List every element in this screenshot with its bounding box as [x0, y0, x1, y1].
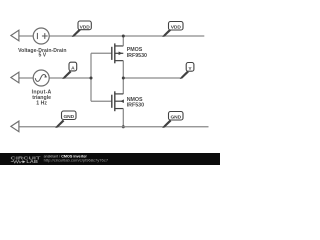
wire input row left segment — [19, 77, 33, 79]
footer logo wave — [11, 160, 23, 163]
wire gate stub PMOS — [91, 52, 112, 54]
transistor Q1 PMOS — [112, 43, 115, 63]
net flag Y — [181, 71, 189, 78]
node junction output — [122, 77, 125, 80]
svg-text:1 Hz: 1 Hz — [36, 101, 47, 107]
net flag GND left — [56, 120, 64, 127]
svg-text:IRF9530: IRF9530 — [127, 53, 147, 59]
node junction PMOS VDD — [122, 35, 125, 38]
terminal arrow top-left — [11, 30, 19, 41]
wire top rail left segment — [19, 35, 33, 37]
svg-text:5 V: 5 V — [38, 53, 46, 59]
wire PMOS source up — [122, 36, 124, 46]
footer logo arrow — [23, 160, 26, 163]
svg-text:http://circuitlab.com/c/pt968c: http://circuitlab.com/c/pt968c7y76c7 — [44, 159, 109, 163]
svg-text:GND: GND — [63, 114, 74, 120]
node junction NMOS GND — [122, 125, 125, 128]
wire gate stub NMOS — [91, 100, 112, 102]
terminal arrow input — [11, 72, 19, 83]
net flag VDD left — [73, 29, 81, 36]
wire PMOS drain down — [122, 61, 124, 78]
wire NMOS source down — [122, 109, 124, 127]
wire NMOS drain up — [122, 78, 124, 94]
wire gate bus vertical — [90, 53, 92, 101]
wire output to Y — [123, 77, 181, 79]
svg-text:GND: GND — [170, 115, 181, 121]
net flag VDD right — [163, 29, 171, 36]
voltage source V2 function generator — [33, 70, 49, 86]
voltage source V1 — [33, 28, 49, 44]
wire bottom rail GND — [19, 126, 209, 128]
svg-text:IRF530: IRF530 — [127, 103, 144, 109]
net flag A — [63, 71, 71, 78]
footer bar — [0, 153, 220, 165]
svg-text:A: A — [71, 66, 75, 72]
svg-text:VDD: VDD — [171, 25, 182, 31]
node junction input gate — [90, 77, 93, 80]
wire input row to gate bus — [49, 77, 91, 79]
net flag GND right — [163, 120, 171, 127]
svg-text:VDD: VDD — [80, 24, 91, 30]
wire top rail VDD — [49, 35, 204, 37]
svg-text:LAB: LAB — [26, 159, 38, 164]
transistor Q2 NMOS — [112, 91, 115, 111]
terminal arrow bottom-left — [11, 121, 19, 132]
